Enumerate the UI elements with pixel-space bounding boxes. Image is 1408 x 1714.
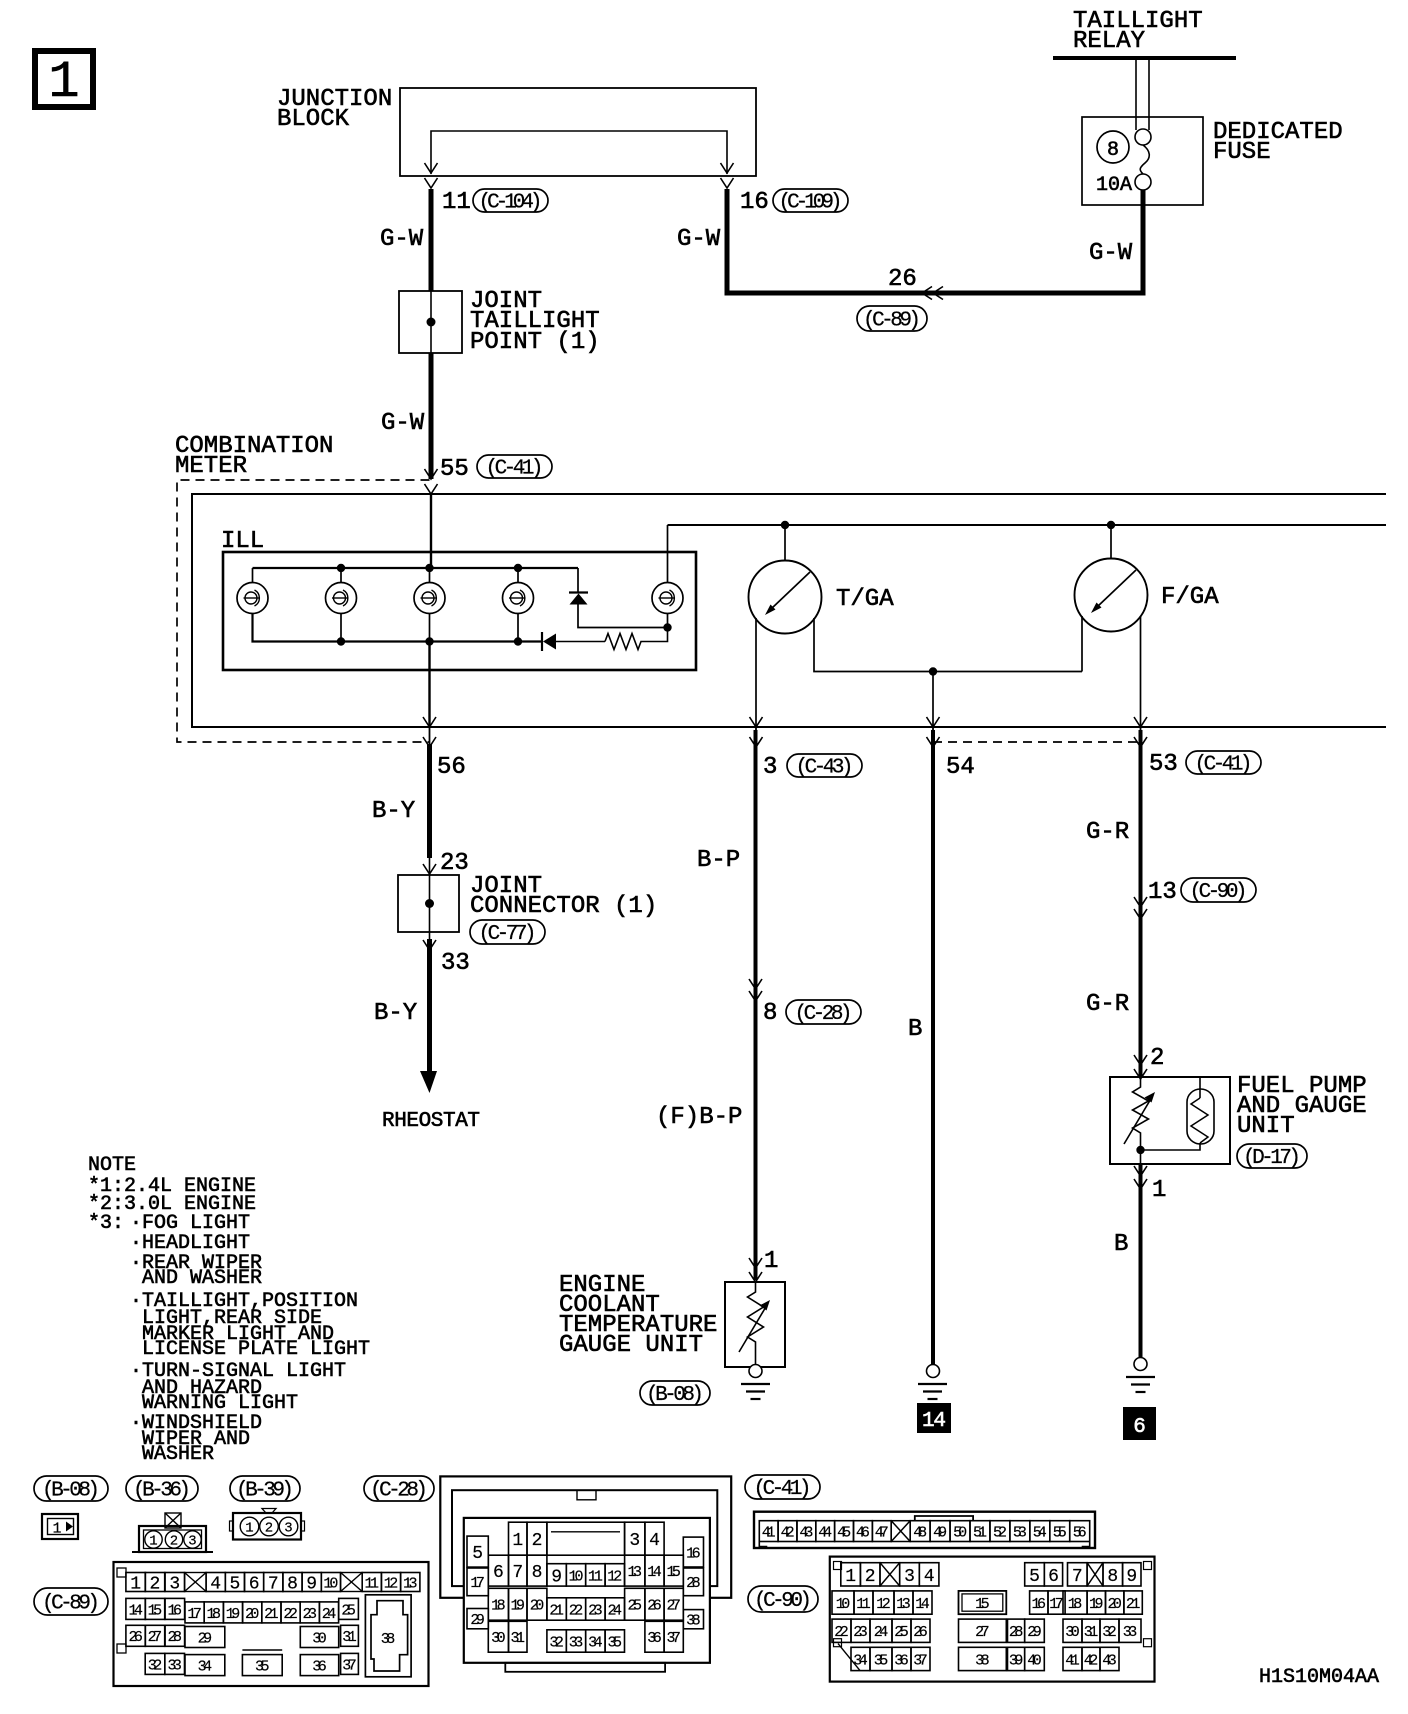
svg-text:NOTE: NOTE: [88, 1154, 136, 1177]
svg-text:6: 6: [1048, 1567, 1059, 1587]
svg-text:8: 8: [1107, 1567, 1118, 1587]
fuel pump node: [1136, 1146, 1144, 1154]
fuel pump motor: [1141, 1077, 1215, 1150]
svg-text:41: 41: [1065, 1652, 1080, 1669]
svg-text:25: 25: [628, 1598, 643, 1615]
svg-text:11: 11: [856, 1596, 871, 1613]
wire G-R down: [1139, 730, 1143, 1077]
illumination bulb 2: [326, 583, 357, 614]
chevrons on wire 26: [922, 287, 943, 300]
svg-text:POINT (1): POINT (1): [470, 329, 600, 356]
svg-text:G-W: G-W: [381, 410, 425, 437]
svg-text:14: 14: [128, 1602, 143, 1619]
svg-text:12: 12: [607, 1568, 622, 1585]
pin 55 entry arrows: [425, 469, 438, 494]
svg-text:1: 1: [512, 1531, 523, 1551]
svg-text:G-W: G-W: [380, 226, 424, 253]
fuel pump and gauge unit box: [1110, 1077, 1230, 1164]
svg-text:11: 11: [588, 1568, 603, 1585]
svg-text:21: 21: [1126, 1596, 1141, 1613]
arrow out of joint connector: [423, 940, 436, 950]
connector label C-89: [857, 306, 927, 331]
svg-text:METER: METER: [175, 453, 247, 480]
svg-text:13: 13: [403, 1575, 418, 1592]
svg-text:54: 54: [1033, 1525, 1047, 1542]
wire 54 down: [931, 730, 935, 1364]
svg-text:3: 3: [169, 1575, 180, 1595]
svg-text:35: 35: [255, 1659, 270, 1676]
svg-text:35: 35: [874, 1652, 889, 1669]
label FUEL PUMP AND GAUGE UNIT: [1237, 1073, 1367, 1140]
svg-text:10: 10: [836, 1596, 851, 1613]
svg-text:23: 23: [440, 850, 469, 877]
T/GA left lead to pin 3: [755, 618, 757, 727]
connector label B-36: [126, 1476, 198, 1501]
svg-text:15: 15: [975, 1596, 990, 1613]
pin exit arrows: [927, 717, 940, 747]
svg-text:(C-41): (C-41): [486, 458, 544, 481]
svg-text:41: 41: [762, 1525, 776, 1542]
svg-text:28: 28: [168, 1629, 183, 1646]
node F/GA feed: [1107, 521, 1115, 529]
lamp bottom bus: [253, 613, 543, 642]
ground reference 6: [1123, 1407, 1156, 1440]
wire pin55 to lamp bus: [430, 494, 432, 568]
svg-text:16: 16: [1032, 1596, 1047, 1613]
connector label D-17: [1237, 1144, 1307, 1168]
svg-text:43: 43: [1102, 1652, 1117, 1669]
svg-text:16: 16: [686, 1546, 701, 1563]
pin exit arrows: [1134, 717, 1147, 747]
connector label B-08: [34, 1476, 108, 1501]
ECT ground: [741, 1365, 770, 1400]
svg-text:16: 16: [740, 189, 769, 216]
connector label C-41: [745, 1475, 820, 1499]
connector C-28 pin diagram: [440, 1476, 731, 1671]
svg-text:(C-90): (C-90): [1190, 881, 1248, 904]
svg-text:14: 14: [915, 1596, 930, 1613]
svg-text:36: 36: [312, 1659, 327, 1676]
svg-text:1: 1: [845, 1567, 856, 1587]
svg-text:UNIT: UNIT: [1237, 1113, 1295, 1140]
svg-text:1: 1: [1152, 1177, 1166, 1204]
svg-text:B-Y: B-Y: [372, 798, 415, 825]
svg-text:29: 29: [198, 1630, 213, 1647]
svg-text:26: 26: [128, 1629, 143, 1646]
svg-text:42: 42: [1084, 1652, 1099, 1669]
svg-text:9: 9: [1126, 1567, 1137, 1587]
lamp top bus: [253, 567, 579, 569]
svg-text:AND WASHER: AND WASHER: [142, 1267, 262, 1290]
svg-text:27: 27: [148, 1629, 163, 1646]
svg-text:G-W: G-W: [1089, 240, 1133, 267]
svg-text:H1S10M04AA: H1S10M04AA: [1259, 1666, 1379, 1689]
svg-text:2: 2: [532, 1531, 543, 1551]
svg-text:48: 48: [913, 1525, 927, 1542]
svg-text:31: 31: [1084, 1624, 1099, 1641]
svg-text:F/GA: F/GA: [1161, 584, 1219, 611]
gauge F/GA: [1075, 525, 1148, 632]
gauge T/GA: [749, 525, 822, 634]
svg-text:40: 40: [1027, 1652, 1042, 1669]
svg-text:23: 23: [303, 1606, 318, 1623]
svg-text:B-P: B-P: [697, 847, 740, 874]
connector label C-109: [773, 189, 848, 212]
svg-text:3: 3: [284, 1521, 292, 1537]
svg-text:G-R: G-R: [1086, 819, 1129, 846]
svg-text:47: 47: [875, 1525, 889, 1542]
connector label C-28: [364, 1476, 434, 1501]
bulb 4 leads: [517, 568, 519, 642]
svg-text:23: 23: [853, 1624, 868, 1641]
svg-text:27: 27: [666, 1598, 681, 1615]
svg-text:24: 24: [874, 1624, 889, 1641]
svg-text:56: 56: [1073, 1525, 1087, 1542]
label ENGINE COOLANT TEMPERATURE GAUGE UNIT: [559, 1272, 717, 1359]
pin exit arrows: [750, 717, 763, 747]
node T/GA feed: [781, 521, 789, 529]
ground 6: [1126, 1358, 1155, 1393]
ILL lamp box: [223, 552, 696, 670]
svg-text:10: 10: [323, 1575, 338, 1592]
svg-text:GAUGE UNIT: GAUGE UNIT: [559, 1332, 703, 1359]
svg-text:17: 17: [470, 1575, 485, 1592]
svg-text:14: 14: [922, 1410, 946, 1433]
svg-text:1: 1: [764, 1248, 778, 1275]
label COMBINATION METER: [175, 433, 333, 480]
svg-text:34: 34: [588, 1634, 603, 1651]
svg-text:53: 53: [1149, 751, 1178, 778]
svg-text:25: 25: [894, 1624, 909, 1641]
svg-text:43: 43: [799, 1525, 813, 1542]
svg-text:34: 34: [198, 1659, 213, 1676]
svg-text:22: 22: [569, 1602, 584, 1619]
svg-text:54: 54: [946, 754, 975, 781]
connector label C-28 wire: [786, 1000, 861, 1024]
svg-text:33: 33: [1123, 1624, 1138, 1641]
label JOINT CONNECTOR (1): [470, 873, 657, 920]
svg-text:38: 38: [381, 1631, 396, 1648]
taillight relay label and bus: [1053, 8, 1236, 58]
svg-text:22: 22: [834, 1624, 849, 1641]
svg-text:18: 18: [1068, 1596, 1083, 1613]
svg-text:3: 3: [904, 1567, 915, 1587]
arrow into pin 16: [721, 163, 734, 188]
svg-text:8: 8: [763, 1000, 777, 1027]
diode D2 (left) on bottom bus: [542, 632, 605, 651]
chevrons C-28 crossing: [749, 979, 762, 1001]
svg-text:32: 32: [549, 1634, 564, 1651]
illumination bulb 3: [414, 583, 445, 614]
svg-text:25: 25: [341, 1602, 356, 1619]
connector label C-90: [748, 1586, 818, 1612]
svg-text:55: 55: [440, 456, 469, 483]
svg-text:27: 27: [975, 1624, 990, 1641]
svg-text:24: 24: [608, 1602, 623, 1619]
bus junction dots: [425, 564, 433, 646]
svg-text:2: 2: [265, 1521, 273, 1537]
svg-text:(D-17): (D-17): [1243, 1147, 1301, 1170]
svg-text:29: 29: [470, 1612, 485, 1629]
bulb 5 leads: [667, 525, 669, 628]
svg-text:(C-89): (C-89): [863, 310, 921, 333]
svg-text:55: 55: [1053, 1525, 1067, 1542]
svg-text:21: 21: [264, 1606, 279, 1623]
svg-text:30: 30: [312, 1630, 327, 1647]
svg-text:(C-77): (C-77): [479, 923, 537, 946]
svg-text:7: 7: [268, 1575, 279, 1595]
svg-text:(C-43): (C-43): [796, 757, 854, 780]
svg-text:31: 31: [342, 1629, 357, 1646]
svg-text:T/GA: T/GA: [836, 586, 894, 613]
connector label C-89: [34, 1588, 108, 1615]
svg-text:(B-08): (B-08): [646, 1384, 704, 1407]
bus junction dots: [514, 564, 522, 646]
diode D1 (up) branch from top bus: [569, 568, 668, 628]
svg-text:38: 38: [975, 1652, 990, 1669]
fuse number circle 8: [1097, 131, 1129, 163]
svg-text:32: 32: [148, 1657, 163, 1674]
svg-text:CONNECTOR (1): CONNECTOR (1): [470, 893, 657, 920]
bulb 3 leads: [429, 568, 431, 642]
svg-text:21: 21: [549, 1602, 564, 1619]
svg-text:1: 1: [149, 1534, 157, 1550]
svg-text:39: 39: [1009, 1652, 1024, 1669]
svg-text:30: 30: [1065, 1624, 1080, 1641]
svg-text:51: 51: [973, 1525, 987, 1542]
connector B-36 pin diagram: [132, 1513, 213, 1552]
svg-text:*3:: *3:: [88, 1212, 124, 1235]
svg-text:36: 36: [647, 1630, 662, 1647]
svg-text:29: 29: [1027, 1624, 1042, 1641]
svg-text:33: 33: [569, 1634, 584, 1651]
svg-text:8: 8: [1107, 139, 1119, 162]
chevrons C-90 crossing: [1134, 897, 1147, 919]
svg-text:20: 20: [530, 1598, 545, 1615]
svg-text:18: 18: [207, 1606, 222, 1623]
svg-text:B: B: [1114, 1231, 1128, 1258]
F/GA left lead: [1081, 616, 1083, 672]
svg-text:37: 37: [666, 1630, 681, 1647]
svg-text:WASHER: WASHER: [142, 1443, 214, 1466]
label JUNCTION BLOCK: [277, 86, 392, 133]
svg-text:31: 31: [511, 1630, 526, 1647]
svg-text:5: 5: [1029, 1567, 1040, 1587]
svg-text:G-W: G-W: [677, 226, 721, 253]
svg-text:FUSE: FUSE: [1213, 139, 1271, 166]
svg-text:7: 7: [1072, 1567, 1083, 1587]
svg-text:7: 7: [512, 1563, 523, 1583]
svg-text:3: 3: [188, 1534, 196, 1550]
svg-text:17: 17: [1049, 1596, 1064, 1613]
svg-text:(C-89): (C-89): [42, 1593, 100, 1616]
ground reference 14: [917, 1403, 951, 1433]
svg-text:44: 44: [818, 1525, 832, 1542]
T/GA right lead to common: [814, 618, 1082, 672]
combination meter solid box: [192, 494, 1386, 727]
connector label C-90 wire: [1181, 878, 1256, 902]
wire to pin 54: [932, 672, 934, 728]
wire G-W from junction block pin 11: [429, 189, 434, 291]
svg-text:26: 26: [913, 1624, 928, 1641]
svg-text:28: 28: [1009, 1624, 1024, 1641]
arrow into pin 11: [425, 163, 438, 188]
joint taillight point box: [399, 291, 462, 353]
svg-text:13: 13: [896, 1596, 911, 1613]
connector label B-08 wire: [640, 1381, 710, 1405]
connector B-08 pin diagram: [42, 1514, 78, 1539]
svg-text:1: 1: [130, 1575, 141, 1595]
svg-text:(C-28): (C-28): [795, 1003, 853, 1026]
svg-text:RHEOSTAT: RHEOSTAT: [382, 1110, 480, 1133]
F/GA right lead to pin 53: [1140, 616, 1142, 727]
connector B-39 pin diagram: [230, 1509, 305, 1540]
svg-text:13: 13: [628, 1564, 643, 1581]
svg-text:35: 35: [608, 1634, 623, 1651]
svg-text:5: 5: [229, 1575, 240, 1595]
dedicated fuse box: [1082, 117, 1203, 205]
wire B-P down: [754, 730, 758, 1280]
svg-text:6: 6: [493, 1563, 504, 1583]
svg-text:15: 15: [666, 1564, 681, 1581]
connector C-89 pin diagram: [114, 1562, 429, 1686]
svg-text:(C-41): (C-41): [1195, 754, 1253, 777]
svg-text:(C-28): (C-28): [370, 1480, 428, 1503]
svg-text:19: 19: [226, 1606, 241, 1623]
junction block internal wire: [431, 131, 727, 174]
relay to fuse double wire: [1136, 60, 1149, 130]
svg-text:37: 37: [913, 1652, 928, 1669]
wire B-Y to joint connector: [427, 744, 432, 858]
svg-text:(C-90): (C-90): [754, 1590, 812, 1613]
illumination bulb 4: [503, 583, 534, 614]
svg-text:9: 9: [551, 1567, 562, 1587]
svg-text:38: 38: [686, 1613, 701, 1630]
svg-text:19: 19: [511, 1598, 526, 1615]
fuel gauge variable resistor: [1124, 1077, 1155, 1164]
svg-text:4: 4: [210, 1575, 221, 1595]
svg-text:45: 45: [837, 1525, 851, 1542]
svg-text:11: 11: [365, 1575, 380, 1592]
bulb 1 leads: [252, 568, 254, 642]
arrow into joint connector: [423, 864, 436, 874]
ECT variable resistor: [739, 1282, 770, 1364]
svg-text:6: 6: [249, 1575, 260, 1595]
node bulb5/diode/resistor: [663, 623, 671, 631]
wire from ILL lamps to gauges (top feed): [668, 524, 1387, 526]
svg-text:2: 2: [865, 1567, 876, 1587]
svg-text:8: 8: [287, 1575, 298, 1595]
svg-text:26: 26: [647, 1598, 662, 1615]
svg-text:52: 52: [993, 1525, 1007, 1542]
svg-text:9: 9: [306, 1575, 317, 1595]
arrows into fuel pump unit: [1134, 1055, 1147, 1079]
wire G-W from junction block pin 16 to dedicated fuse: [727, 189, 1143, 293]
joint connector box C-77: [398, 858, 459, 939]
svg-text:22: 22: [283, 1606, 298, 1623]
combination meter dashed outline right segment: [933, 741, 1141, 743]
svg-text:23: 23: [588, 1602, 603, 1619]
svg-text:(C-41): (C-41): [754, 1478, 812, 1501]
svg-text:49: 49: [933, 1525, 947, 1542]
svg-text:30: 30: [491, 1630, 506, 1647]
svg-text:1: 1: [245, 1521, 253, 1537]
svg-text:37: 37: [342, 1657, 357, 1674]
svg-text:56: 56: [437, 754, 466, 781]
connector label C-77: [470, 920, 545, 944]
svg-text:18: 18: [491, 1598, 506, 1615]
svg-text:3: 3: [763, 754, 777, 781]
wire 56 through meter bottom: [428, 642, 430, 728]
svg-text:53: 53: [1013, 1525, 1027, 1542]
svg-text:15: 15: [148, 1602, 163, 1619]
svg-text:14: 14: [647, 1564, 662, 1581]
wire G-W from joint point to combination meter pin 55: [429, 353, 434, 479]
illumination bulb 1: [237, 583, 268, 614]
bulb 2 leads: [340, 568, 342, 642]
svg-text:33: 33: [441, 950, 470, 977]
svg-text:34: 34: [853, 1652, 868, 1669]
svg-text:4: 4: [649, 1531, 660, 1551]
note text block: [88, 1154, 370, 1466]
svg-text:36: 36: [894, 1652, 909, 1669]
node pin 54: [929, 667, 937, 675]
connector label C-43: [787, 754, 862, 777]
svg-text:10A: 10A: [1096, 174, 1132, 197]
wire B-Y to rheostat: [420, 939, 437, 1093]
svg-text:(C-104): (C-104): [479, 192, 543, 215]
connector C-90 pin diagram: [830, 1557, 1155, 1682]
ground 14: [918, 1365, 947, 1400]
svg-text:20: 20: [1107, 1596, 1122, 1613]
svg-text:24: 24: [322, 1606, 337, 1623]
connector label B-39: [230, 1476, 300, 1501]
svg-text:B: B: [908, 1016, 922, 1043]
junction block box: [400, 88, 756, 176]
svg-text:(B-39): (B-39): [236, 1480, 294, 1503]
svg-text:33: 33: [167, 1657, 182, 1674]
svg-text:G-R: G-R: [1086, 991, 1129, 1018]
svg-text:5: 5: [472, 1544, 483, 1564]
svg-text:BLOCK: BLOCK: [277, 106, 350, 133]
combination meter dashed outline: [177, 480, 430, 742]
svg-text:12: 12: [384, 1575, 399, 1592]
label JOINT TAILLIGHT POINT (1): [470, 288, 600, 356]
svg-text:17: 17: [187, 1606, 202, 1623]
svg-text:10: 10: [569, 1568, 584, 1585]
svg-text:2: 2: [149, 1575, 160, 1595]
page number box 1: [35, 51, 93, 112]
svg-text:(C-109): (C-109): [779, 192, 843, 215]
arrows out of fuel pump unit: [1134, 1166, 1147, 1189]
svg-text:RELAY: RELAY: [1073, 28, 1145, 55]
arrows into ECT unit: [749, 1258, 762, 1282]
svg-text:(B-08): (B-08): [42, 1480, 100, 1503]
bus junction dots: [337, 564, 345, 646]
svg-text:50: 50: [953, 1525, 967, 1542]
svg-text:12: 12: [876, 1596, 891, 1613]
connector label C-41 top: [477, 455, 552, 478]
svg-text:16: 16: [168, 1602, 183, 1619]
connector label C-104: [473, 189, 548, 212]
svg-text:1: 1: [52, 1521, 61, 1538]
connector C-41 pin diagram: [754, 1512, 1095, 1548]
pin exit arrows: [423, 717, 436, 747]
svg-text:32: 32: [1102, 1624, 1117, 1641]
svg-text:2: 2: [170, 1534, 178, 1550]
svg-text:B-Y: B-Y: [374, 1000, 417, 1027]
svg-text:19: 19: [1089, 1596, 1104, 1613]
